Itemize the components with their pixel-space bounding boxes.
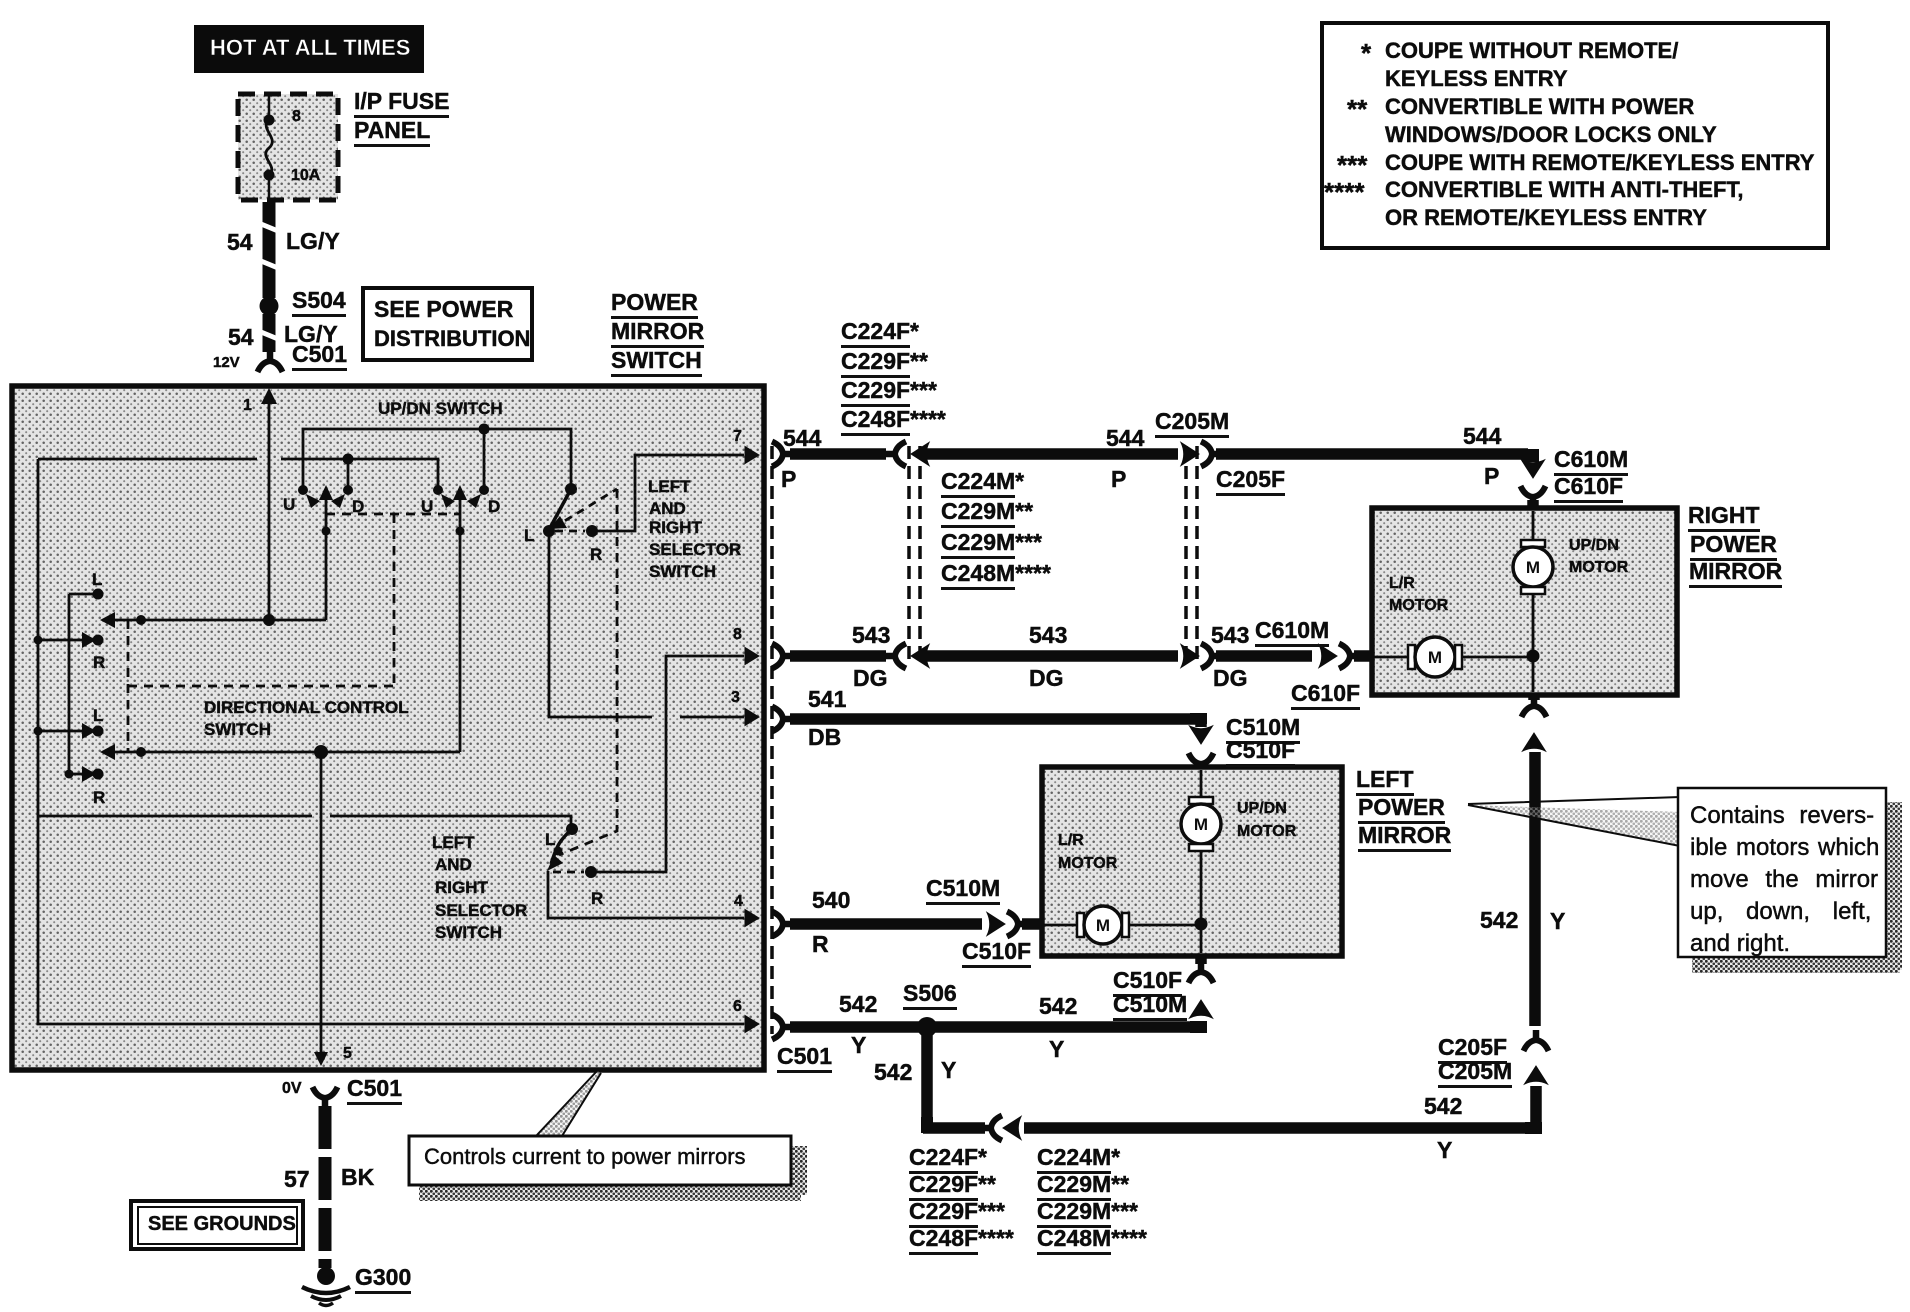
label: see power distribution	[374, 298, 513, 321]
directional lower wiper line to pole 2	[100, 744, 460, 760]
wire 542 Y right mirror down-leg	[1529, 752, 1541, 1026]
label: power mirror switch heading	[611, 291, 698, 314]
wire 544 P segment 3 to right mirror	[1201, 442, 1539, 467]
up/dn switch second feed line	[38, 454, 438, 487]
up/dn switch pole 2	[453, 485, 467, 752]
pin 5 wire	[314, 752, 328, 1066]
label: connector list C224F top	[841, 320, 919, 343]
connector C510M/C510F on 541 into left mirror	[1189, 726, 1214, 774]
connector C224/C229/C248 dashed boundary pair	[909, 446, 920, 660]
label: see grounds	[148, 1214, 296, 1234]
label: wire 543	[852, 624, 890, 647]
wire 542 Y splice down and right	[921, 1032, 1542, 1141]
label: wire 544 seg3 + C610	[1463, 425, 1501, 448]
node junction left mirror	[1195, 918, 1208, 954]
label: connector C501 top	[292, 343, 347, 366]
label: up/dn contacts	[283, 496, 295, 513]
label: wire 540	[812, 889, 850, 912]
connector C501 pin 1 (female half, facing switch)	[258, 351, 283, 372]
connector C501 pin 5 fork below switch box	[313, 1087, 338, 1108]
legend text	[1361, 40, 1371, 66]
wire 543 DG segment 2	[911, 645, 1199, 668]
svg-text:M: M	[1428, 648, 1442, 667]
splice S504	[260, 297, 279, 316]
note text: contains reversible motors	[1690, 804, 1874, 828]
see grounds box	[131, 1201, 303, 1249]
pin 4 wire from selector 2 L	[548, 871, 759, 927]
selector 2 R contact + dashed throw	[553, 866, 597, 878]
motor letters right mirror	[1428, 558, 1540, 667]
right power mirror box	[1372, 508, 1677, 695]
wire 542 Y splice to left mirror	[935, 958, 1214, 1033]
label: splice S504	[292, 289, 346, 312]
up/dn switch top bus	[303, 424, 571, 491]
label: left power mirror heading	[1356, 768, 1414, 791]
ground G300	[302, 1267, 350, 1306]
fuse F 10A element	[264, 96, 275, 200]
connector C610F/C610M below right mirror	[1522, 696, 1547, 751]
label: connector list C224F bottom	[909, 1146, 987, 1169]
label: right power mirror heading	[1688, 504, 1760, 527]
up/dn switch contact D1	[331, 485, 353, 508]
right mirror l/r motor M	[1374, 637, 1533, 677]
cross tie wire upper-L to lower-R	[68, 594, 71, 774]
pin 6 arrow	[745, 1016, 759, 1033]
node: feed junction on up/dn wiper line	[263, 614, 275, 626]
switch feed line to lower selector	[38, 816, 571, 825]
wire 57 BK dashed to ground	[319, 1106, 332, 1268]
wire 541 DB	[772, 707, 1207, 732]
connector C610M/C610F on 544	[1521, 460, 1546, 508]
left mirror l/r motor M	[1044, 906, 1201, 944]
label: connector C501 bottom / ground path	[282, 1081, 302, 1097]
wire 540 R	[772, 912, 1044, 937]
wire 544 P segment 1	[772, 442, 906, 467]
label: wire 542 bottom run	[839, 993, 877, 1016]
up/dn switch contact U2	[433, 485, 455, 508]
label: selector switch 2	[432, 834, 475, 851]
pin 1 entry arrow + feed wire	[261, 388, 277, 620]
note text: controls current	[424, 1146, 746, 1168]
label: wire 544 seg1	[783, 427, 821, 450]
pin 8 wire from selector 2 R	[591, 648, 759, 873]
label: connector list C224M top	[941, 470, 1024, 493]
pin 7 wire from selector 1 R	[592, 447, 759, 532]
label: fuse pin 8 and rating	[292, 109, 301, 125]
up/dn switch contact U1	[298, 485, 320, 508]
node: pin 5 junction	[314, 745, 328, 759]
note leader wedge to controls-box	[536, 1071, 601, 1136]
connector C501 dashed boundary	[770, 446, 774, 1034]
node junction right mirror	[1527, 650, 1540, 693]
legend box	[1322, 23, 1828, 248]
mechanical linkage (dashed) directional wipers	[128, 620, 394, 752]
note leader wedge to contains-box	[1468, 797, 1680, 846]
label: directional contacts	[92, 571, 102, 588]
pin 3 wire from selector 1 pivot	[549, 534, 759, 726]
motor letters left mirror	[1096, 815, 1208, 935]
label: connector list C224M bottom	[1037, 1146, 1120, 1169]
label: selector switch 1	[648, 478, 691, 495]
splice S506	[917, 1017, 937, 1037]
label: pin numbers	[243, 398, 252, 414]
label: directional control switch	[204, 699, 409, 716]
label: wire 541	[808, 688, 846, 711]
note box: controls current	[409, 1136, 807, 1201]
power mirror switch box	[12, 386, 764, 1070]
see power distribution box	[363, 288, 532, 360]
label: left mirror motors	[1237, 801, 1287, 817]
svg-text:M: M	[1096, 916, 1110, 935]
label: wire 542 right leg	[1480, 909, 1518, 932]
connector C205 dashed boundary pair	[1186, 446, 1197, 660]
wire 54 LG/Y splice to C501	[261, 314, 278, 352]
label: right mirror motors	[1569, 538, 1619, 554]
wire 544 P segment 2	[911, 443, 1199, 466]
up/dn switch wiper (upper directional wiper line)	[100, 612, 326, 628]
left/right selector switch 1 common	[543, 483, 577, 537]
up/dn switch contact D2	[467, 485, 489, 508]
svg-text:M: M	[1194, 815, 1208, 834]
fuse panel box (I/P FUSE PANEL)	[238, 94, 338, 200]
left power mirror box	[1042, 767, 1342, 956]
connector C205F/C205M on 542 vertical	[1524, 1030, 1549, 1084]
label: circuit 54 LG/Y lower	[228, 326, 254, 349]
directional control switch lower contacts L/R	[34, 723, 104, 782]
selector 1 R contact + dashed throw	[553, 489, 617, 537]
mechanical linkage (dashed) up/dn poles	[326, 514, 460, 686]
label: up/dn switch	[378, 400, 503, 417]
svg-text:M: M	[1526, 558, 1540, 577]
note box: contains reversible motors	[1678, 788, 1902, 973]
left mirror up/dn motor M	[1181, 770, 1221, 920]
label: circuit 54 LG/Y upper	[227, 231, 253, 254]
label: HOT AT ALL TIMES	[194, 25, 424, 73]
selector linkage dashed vertical	[559, 489, 617, 855]
left/right selector switch 2 common	[547, 823, 578, 871]
rail wire (left bus to pin 6)	[38, 459, 744, 1024]
directional control switch upper contacts L/R	[34, 589, 104, 649]
wire 543 DG segment 1	[772, 644, 906, 669]
wire 543 DG segment 3	[1201, 644, 1337, 669]
wire 542 Y from pin 6 to splice	[772, 1015, 920, 1040]
label: I/P FUSE PANEL	[354, 90, 449, 113]
connector C610M/C610F on 543, into right mirror	[1339, 644, 1372, 669]
right mirror up/dn motor M	[1513, 511, 1553, 652]
label: wire 544 seg2 + C205	[1106, 427, 1144, 450]
up/dn switch pole 1	[319, 485, 333, 620]
wire 54 LG/Y fuse to splice	[261, 202, 278, 298]
